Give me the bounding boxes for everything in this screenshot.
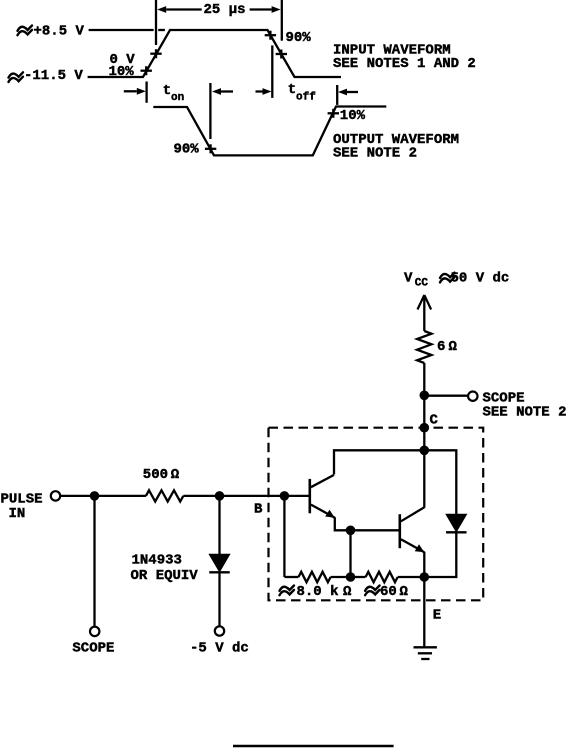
node 90% cross on output falling edge xyxy=(205,144,216,153)
output waveform trace xyxy=(153,107,386,156)
wire Q1 emitter elbow xyxy=(335,517,351,530)
t_on left arrow xyxy=(137,88,146,95)
wire base node B to Q1 xyxy=(283,495,309,497)
svg-text:10%: 10% xyxy=(340,108,366,124)
wire node B to 1N4933 xyxy=(218,496,220,554)
wire B node vertical xyxy=(283,496,285,577)
node junction dot at scope tap xyxy=(420,391,430,401)
wire collector branch to Q1 xyxy=(334,450,424,474)
svg-text:8.0 k: 8.0 k xyxy=(297,584,339,600)
ground symbol xyxy=(414,646,437,648)
svg-text:-11.5 V: -11.5 V xyxy=(24,68,83,84)
svg-text:B: B xyxy=(254,502,263,518)
terminal pulse in circle xyxy=(51,491,60,500)
node junction dot resistor row left xyxy=(346,572,356,582)
wire t_on right extension xyxy=(209,83,211,139)
svg-text:90%: 90% xyxy=(174,141,200,157)
diode CR internal xyxy=(446,514,467,532)
svg-text:E: E xyxy=(433,608,441,624)
svg-text:SEE NOTE 2: SEE NOTE 2 xyxy=(483,404,566,420)
input waveform trace xyxy=(88,30,341,77)
svg-text:V: V xyxy=(404,271,413,287)
svg-text:Ω: Ω xyxy=(400,584,409,600)
resistor 500 ohm xyxy=(146,490,183,501)
svg-text:90%: 90% xyxy=(286,30,312,46)
wire scope left drop xyxy=(93,496,95,627)
wire pulse-in to scope node xyxy=(60,495,95,497)
svg-text:500: 500 xyxy=(143,467,168,483)
wire emitter to ground xyxy=(423,577,425,647)
wire 500ohm to node B xyxy=(183,495,219,497)
transistor Q1 collector stroke xyxy=(311,475,334,487)
svg-text:Ω: Ω xyxy=(171,467,180,483)
label approx +8.5 V xyxy=(18,26,33,36)
svg-text:1N4933: 1N4933 xyxy=(132,553,182,569)
transistor Q2 emitter stroke xyxy=(401,539,424,552)
wire 8.0k to link dot xyxy=(331,576,351,578)
svg-text:50 V dc: 50 V dc xyxy=(451,271,510,287)
resistor 8.0k xyxy=(299,572,331,582)
terminal -5V circle xyxy=(215,626,224,635)
wire t_off left extension xyxy=(271,45,273,98)
25us dimension right arrow xyxy=(272,6,281,13)
25us dimension left arrow xyxy=(157,6,166,13)
svg-text:CC: CC xyxy=(415,278,429,290)
wire scope tap xyxy=(424,395,468,397)
node junction dot Q1-Q2 link xyxy=(346,526,356,536)
wire Q1 emitter to Q2 base xyxy=(351,529,399,531)
node junction dot collector tee xyxy=(420,446,430,456)
wire node C tee to diode xyxy=(424,450,456,514)
t_off left arrow xyxy=(263,88,272,95)
node 10% cross on input rising edge xyxy=(141,66,152,75)
node junction dot C on box edge xyxy=(420,423,430,433)
svg-text:C: C xyxy=(430,413,439,429)
terminal scope circle xyxy=(468,392,477,401)
wire link node down to resistor row xyxy=(349,530,351,577)
wire node B into box xyxy=(220,495,284,497)
node 0V cross on input falling edge xyxy=(276,50,287,59)
node junction dot B xyxy=(215,491,225,501)
svg-text:Ω: Ω xyxy=(343,584,352,600)
svg-text:SEE NOTE 2: SEE NOTE 2 xyxy=(333,145,417,161)
diode 1N4933 xyxy=(209,554,230,572)
svg-text:on: on xyxy=(171,92,184,104)
svg-text:OR EQUIV: OR EQUIV xyxy=(131,568,199,584)
svg-text:+8.5 V: +8.5 V xyxy=(34,23,85,39)
wire t_on left extension xyxy=(145,82,147,103)
resistor 60 ohm xyxy=(366,572,398,582)
transistor Q1 emitter stroke xyxy=(311,505,335,518)
svg-text:SCOPE: SCOPE xyxy=(72,640,114,656)
svg-text:t: t xyxy=(163,83,171,99)
power Vcc arrow xyxy=(418,295,432,310)
resistor 6 ohm xyxy=(417,331,431,363)
svg-text:6: 6 xyxy=(437,339,445,355)
label approx 8.0 k ohm xyxy=(280,586,295,596)
transistor Q2 base bar xyxy=(398,514,401,548)
wire +8.5V level leader xyxy=(89,29,154,31)
t_on right arrow xyxy=(212,88,221,95)
t_off right arrow xyxy=(338,89,347,96)
svg-text:off: off xyxy=(296,91,316,103)
wire bottom row left stub xyxy=(284,576,298,578)
svg-text:PULSE: PULSE xyxy=(1,491,43,507)
label approx 60 ohm xyxy=(365,586,380,596)
node junction dot Q1 base xyxy=(280,491,290,501)
svg-text:IN: IN xyxy=(9,506,26,522)
dashed enclosure box xyxy=(269,428,484,601)
wire link to 60ohm xyxy=(351,576,366,578)
svg-text:60: 60 xyxy=(380,584,397,600)
wire Q2 emitter riser xyxy=(423,552,425,577)
svg-text:SEE NOTES 1 AND 2: SEE NOTES 1 AND 2 xyxy=(333,56,476,72)
wire 25us right extension line xyxy=(281,0,283,41)
wire Vcc to node C xyxy=(423,363,425,451)
wire Q2 collector riser xyxy=(423,450,425,508)
wire 1N4933 to -5V terminal xyxy=(218,573,220,627)
node junction dot scope tap left xyxy=(90,491,100,501)
svg-text:t: t xyxy=(288,82,296,98)
node 10% cross on output rising edge xyxy=(328,109,339,118)
label approx -11.5 V xyxy=(9,72,24,82)
wire to 500 ohm xyxy=(95,495,146,497)
wire 25us left extension line xyxy=(155,0,157,45)
terminal scope left circle xyxy=(90,627,99,636)
svg-text:25 µs: 25 µs xyxy=(204,2,246,18)
bottom rule line xyxy=(233,745,394,748)
svg-text:-5 V dc: -5 V dc xyxy=(190,640,249,656)
node 0V cross on input rising edge xyxy=(150,49,161,58)
svg-text:Ω: Ω xyxy=(449,339,458,355)
transistor Q2 collector stroke xyxy=(401,507,424,521)
wire 60ohm to emitter node xyxy=(398,576,425,578)
node junction dot emitter E xyxy=(420,572,430,582)
node 90% cross on input falling edge xyxy=(265,31,276,40)
wire diode cathode down xyxy=(424,532,456,577)
transistor Q1 base bar xyxy=(308,479,311,513)
wire t_off right extension xyxy=(336,85,338,105)
